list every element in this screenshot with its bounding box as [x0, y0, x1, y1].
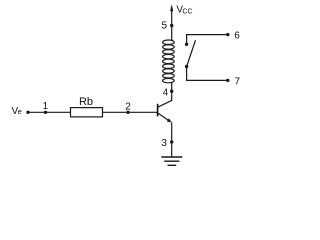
svg-text:CC: CC	[182, 8, 192, 15]
svg-text:6: 6	[234, 31, 240, 42]
svg-text:5: 5	[162, 21, 168, 32]
svg-text:Rb: Rb	[79, 96, 93, 108]
svg-text:7: 7	[235, 76, 241, 87]
svg-text:1: 1	[43, 101, 49, 112]
svg-text:e: e	[18, 107, 22, 116]
svg-text:2: 2	[125, 102, 131, 113]
svg-text:3: 3	[161, 138, 167, 149]
svg-text:4: 4	[163, 87, 169, 98]
